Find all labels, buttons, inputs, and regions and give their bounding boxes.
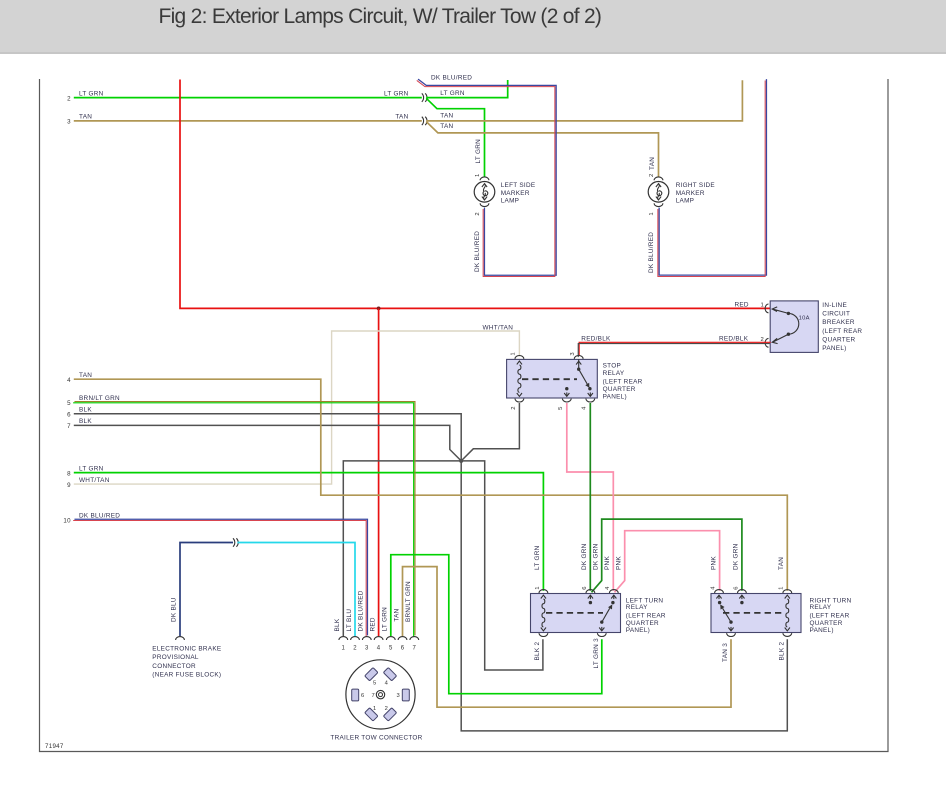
- diagram border: [40, 79, 889, 752]
- svg-text:(LEFT REAR: (LEFT REAR: [810, 613, 850, 620]
- svg-text:ELECTRONIC BRAKE: ELECTRONIC BRAKE: [152, 645, 221, 652]
- cup trailer pin 7: [410, 637, 419, 640]
- svg-text:BRN/LT GRN: BRN/LT GRN: [405, 581, 412, 622]
- svg-text:6: 6: [361, 693, 365, 699]
- svg-text:1: 1: [535, 586, 541, 590]
- wire DK GRN from stop relay pin 4: [589, 403, 591, 591]
- svg-text:1: 1: [511, 352, 517, 356]
- svg-text:LT GRN: LT GRN: [534, 545, 541, 570]
- svg-text:5: 5: [389, 645, 393, 651]
- junction dot BLK: [459, 459, 463, 463]
- svg-text:5: 5: [67, 400, 71, 407]
- trailer tow connector body: [346, 660, 415, 729]
- inline connector on TAN: [422, 117, 427, 125]
- stop relay box: [507, 359, 598, 398]
- svg-text:DK BLU/RED: DK BLU/RED: [79, 513, 120, 520]
- wire TAN from terminal 3: [74, 120, 422, 122]
- svg-text:1: 1: [760, 303, 764, 309]
- cup right lamp pin 2: [654, 177, 663, 180]
- svg-text:RELAY: RELAY: [626, 604, 648, 611]
- svg-text:1: 1: [649, 212, 655, 216]
- svg-text:PROVISIONAL: PROVISIONAL: [152, 654, 199, 661]
- svg-text:4: 4: [582, 406, 588, 410]
- svg-text:RED: RED: [734, 301, 748, 308]
- svg-text:LT BLU: LT BLU: [346, 609, 353, 632]
- svg-text:TAN: TAN: [393, 608, 400, 621]
- cup right relay pin 3: [727, 633, 736, 636]
- svg-text:CONNECTOR: CONNECTOR: [152, 663, 196, 670]
- wire TAN trailer pin 6 to right relay pin 3: [403, 567, 732, 708]
- wire DK BLU/RED left lamp loop: [417, 79, 556, 276]
- inline connector DK BLU to LT BLU: [233, 538, 238, 546]
- wire PNK link to right relay pin 4: [615, 531, 720, 593]
- svg-text:BREAKER: BREAKER: [822, 319, 855, 326]
- svg-text:6: 6: [582, 586, 588, 590]
- svg-text:PANEL): PANEL): [626, 627, 650, 634]
- svg-text:QUARTER: QUARTER: [810, 620, 843, 627]
- svg-text:DK BLU/RED: DK BLU/RED: [431, 75, 472, 82]
- svg-text:PNK: PNK: [710, 556, 717, 570]
- svg-text:BLK: BLK: [79, 407, 92, 414]
- svg-text:WHT/TAN: WHT/TAN: [483, 324, 514, 331]
- svg-text:(NEAR FUSE BLOCK): (NEAR FUSE BLOCK): [152, 672, 221, 679]
- svg-text:TAN 3: TAN 3: [722, 643, 729, 662]
- cup trailer pin 4: [374, 637, 383, 640]
- svg-text:2: 2: [67, 95, 71, 102]
- svg-text:1: 1: [341, 645, 345, 651]
- wire LT BLU to trailer pin 2: [237, 543, 355, 637]
- svg-text:PNK: PNK: [604, 556, 611, 570]
- wire LT GRN from terminal 8: [74, 473, 544, 591]
- svg-text:2: 2: [385, 706, 389, 712]
- svg-text:RIGHT SIDE: RIGHT SIDE: [676, 182, 715, 189]
- svg-text:DK BLU/RED: DK BLU/RED: [358, 590, 365, 631]
- svg-text:10: 10: [63, 518, 71, 525]
- svg-text:RED: RED: [369, 617, 376, 631]
- left turn relay switch: [599, 595, 616, 631]
- svg-text:1: 1: [373, 706, 377, 712]
- wire RED/BLK breaker to stop relay: [578, 342, 770, 357]
- cup left lamp pin 2: [480, 203, 489, 206]
- wire DK GRN link to right relay pin 6: [592, 519, 742, 592]
- svg-text:TAN: TAN: [649, 157, 656, 170]
- wire TAN after connector: [426, 80, 742, 121]
- wire TAN from terminal 4: [74, 379, 788, 591]
- cup electronic brake connector: [176, 637, 185, 640]
- svg-text:9: 9: [67, 482, 71, 489]
- wire BLK from terminal 7: [74, 425, 461, 461]
- breaker internals: [772, 307, 799, 344]
- svg-text:DK BLU: DK BLU: [171, 597, 178, 622]
- left turn relay pin 6 stub: [588, 595, 593, 604]
- svg-text:PANEL): PANEL): [822, 345, 846, 352]
- svg-text:(LEFT REAR: (LEFT REAR: [822, 328, 862, 335]
- svg-text:3: 3: [67, 119, 71, 126]
- svg-text:LT GRN: LT GRN: [382, 607, 389, 632]
- stop relay pin 5 stub: [564, 387, 569, 396]
- svg-text:LT GRN: LT GRN: [79, 465, 104, 472]
- left turn relay dashed link: [546, 612, 603, 614]
- svg-text:2: 2: [511, 406, 517, 410]
- wire BRN/LT GRN from terminal 5: [73, 402, 415, 637]
- wire WHT/TAN from terminal 9: [74, 331, 520, 484]
- cup breaker pin 2: [765, 338, 768, 347]
- svg-text:CIRCUIT: CIRCUIT: [822, 310, 850, 317]
- wire PNK from stop relay pin 5: [567, 403, 614, 591]
- svg-text:MARKER: MARKER: [676, 190, 705, 197]
- wire RED branch to trailer pin 4: [378, 308, 380, 636]
- cup right relay pin 6: [738, 590, 747, 593]
- svg-text:TAN: TAN: [79, 114, 92, 121]
- svg-text:RED/BLK: RED/BLK: [719, 336, 749, 343]
- svg-text:7: 7: [371, 693, 375, 699]
- svg-text:3: 3: [396, 693, 400, 699]
- svg-text:LT GRN 3: LT GRN 3: [593, 638, 600, 669]
- svg-text:(LEFT REAR: (LEFT REAR: [603, 379, 643, 386]
- svg-text:7: 7: [67, 423, 71, 430]
- svg-text:DK GRN: DK GRN: [581, 543, 588, 570]
- stop relay coil: [517, 361, 522, 396]
- svg-text:LEFT SIDE: LEFT SIDE: [501, 182, 536, 189]
- trailer connector socket 2: [383, 708, 396, 721]
- svg-text:2: 2: [353, 645, 357, 651]
- cup left relay pin 3: [597, 633, 606, 636]
- svg-text:4: 4: [710, 586, 716, 590]
- svg-text:LT GRN: LT GRN: [79, 90, 104, 97]
- svg-text:5: 5: [373, 681, 377, 687]
- wire DK BLU brake connector: [180, 543, 233, 637]
- svg-text:PNK: PNK: [615, 556, 622, 570]
- svg-text:(LEFT REAR: (LEFT REAR: [626, 613, 666, 620]
- svg-text:4: 4: [385, 681, 389, 687]
- svg-text:BLK: BLK: [334, 618, 341, 631]
- svg-text:TAN: TAN: [395, 114, 408, 121]
- svg-text:5: 5: [558, 406, 564, 410]
- cup trailer pin 2: [351, 637, 360, 640]
- left turn relay coil: [541, 595, 546, 631]
- trailer connector socket 6: [352, 689, 359, 701]
- cup left relay pin 1: [539, 590, 548, 593]
- title bar: [0, 0, 946, 54]
- trailer connector socket 4: [383, 668, 396, 681]
- svg-text:PANEL): PANEL): [603, 394, 627, 401]
- svg-text:IN-LINE: IN-LINE: [822, 302, 847, 309]
- svg-text:DK BLU/RED: DK BLU/RED: [648, 232, 655, 273]
- lamp right side marker: [648, 182, 669, 203]
- svg-text:7: 7: [412, 645, 416, 651]
- right turn relay switch: [716, 595, 733, 631]
- svg-text:6: 6: [401, 645, 405, 651]
- svg-text:DK GRN: DK GRN: [592, 543, 599, 570]
- right turn relay dashed link: [723, 612, 784, 614]
- trailer connector socket 3: [402, 689, 409, 701]
- svg-text:LT GRN: LT GRN: [440, 90, 465, 97]
- svg-text:4: 4: [377, 645, 381, 651]
- wire BLK branch to trailer pin 1 and left relay: [343, 461, 543, 670]
- stop relay switch: [576, 359, 593, 396]
- wire BLK from stop relay pin 2: [461, 403, 519, 461]
- svg-text:2: 2: [475, 212, 481, 216]
- cup breaker pin 1: [765, 304, 768, 313]
- cup trailer pin 5: [386, 637, 395, 640]
- svg-text:TRAILER TOW CONNECTOR: TRAILER TOW CONNECTOR: [330, 735, 422, 742]
- cup right lamp pin 1: [654, 203, 663, 206]
- wire LT GRN after connector: [426, 80, 508, 98]
- svg-text:10A: 10A: [799, 316, 810, 322]
- svg-text:BRN/LT GRN: BRN/LT GRN: [79, 395, 120, 402]
- wire BLK from terminal 6: [74, 414, 788, 731]
- right turn relay pin 6 stub: [739, 595, 744, 604]
- svg-text:1: 1: [475, 173, 481, 177]
- svg-text:DK GRN: DK GRN: [733, 543, 740, 570]
- svg-text:3: 3: [365, 645, 369, 651]
- svg-text:2: 2: [649, 173, 655, 177]
- wire LT GRN branch to left marker lamp: [426, 98, 484, 177]
- svg-text:RELAY: RELAY: [810, 604, 832, 611]
- wire RED main: [180, 80, 770, 309]
- svg-text:PANEL): PANEL): [810, 627, 834, 634]
- svg-text:WHT/TAN: WHT/TAN: [79, 477, 110, 484]
- svg-text:6: 6: [67, 411, 71, 418]
- svg-text:STOP: STOP: [603, 362, 621, 369]
- svg-text:1: 1: [779, 586, 785, 590]
- svg-text:TAN: TAN: [79, 372, 92, 379]
- svg-text:DK BLU/RED: DK BLU/RED: [474, 231, 481, 272]
- trailer connector socket 1: [365, 708, 378, 721]
- svg-text:8: 8: [67, 470, 71, 477]
- cup left relay pin 4: [609, 590, 618, 593]
- svg-text:LAMP: LAMP: [501, 198, 520, 205]
- junction dot RED: [377, 307, 381, 311]
- wire LT GRN trailer pin 5 to left relay pin 3: [391, 555, 602, 694]
- svg-text:LT GRN: LT GRN: [475, 139, 482, 164]
- svg-text:6: 6: [733, 586, 739, 590]
- svg-text:QUARTER: QUARTER: [603, 386, 636, 393]
- svg-text:LT GRN: LT GRN: [384, 90, 409, 97]
- in-line circuit breaker box: [770, 301, 818, 353]
- lamp left side marker: [474, 182, 495, 203]
- inline connector on LT GRN: [422, 93, 427, 101]
- cup stop relay pin 1: [515, 355, 524, 358]
- wire TAN branch to right marker lamp: [426, 122, 658, 177]
- svg-text:3: 3: [570, 352, 576, 356]
- svg-text:TAN: TAN: [778, 557, 785, 570]
- cup stop relay pin 2: [515, 399, 524, 402]
- cup left relay pin 2: [539, 633, 548, 636]
- cup left lamp pin 1: [480, 177, 489, 180]
- svg-text:QUARTER: QUARTER: [822, 336, 855, 343]
- svg-text:71947: 71947: [45, 743, 64, 750]
- cup left relay pin 6: [586, 590, 595, 593]
- svg-text:MARKER: MARKER: [501, 190, 530, 197]
- cup stop relay pin 5: [562, 399, 571, 402]
- svg-text:TAN: TAN: [440, 123, 453, 130]
- svg-text:RELAY: RELAY: [603, 370, 625, 377]
- cup right relay pin 4: [715, 590, 724, 593]
- svg-text:QUARTER: QUARTER: [626, 620, 659, 627]
- right turn relay box: [711, 594, 801, 633]
- svg-text:Fig 2: Exterior Lamps Circuit,: Fig 2: Exterior Lamps Circuit, W/ Traile…: [159, 5, 602, 28]
- svg-text:RED/BLK: RED/BLK: [581, 336, 611, 343]
- cup trailer pin 3: [362, 637, 371, 640]
- cup right relay pin 2: [783, 633, 792, 636]
- svg-text:BLK 2: BLK 2: [778, 642, 785, 661]
- cup trailer pin 1: [339, 637, 348, 640]
- trailer connector socket 5: [365, 668, 378, 681]
- svg-text:BLK: BLK: [79, 418, 92, 425]
- wire DK BLU/RED from terminal 10: [73, 519, 367, 636]
- svg-text:TAN: TAN: [440, 112, 453, 119]
- svg-text:4: 4: [67, 377, 71, 384]
- wire DK BLU/RED right lamp loop: [658, 79, 767, 276]
- right turn relay coil: [785, 595, 790, 631]
- cup trailer pin 6: [398, 637, 407, 640]
- cup right relay pin 1: [783, 590, 792, 593]
- cup stop relay pin 4: [586, 399, 595, 402]
- svg-text:LAMP: LAMP: [676, 198, 695, 205]
- left turn relay box: [531, 594, 621, 633]
- svg-text:BLK 2: BLK 2: [534, 642, 541, 661]
- cup stop relay pin 3: [574, 355, 583, 358]
- wire LT GRN from terminal 2: [74, 97, 422, 99]
- svg-text:4: 4: [605, 586, 611, 590]
- stop relay dashed link: [522, 378, 577, 380]
